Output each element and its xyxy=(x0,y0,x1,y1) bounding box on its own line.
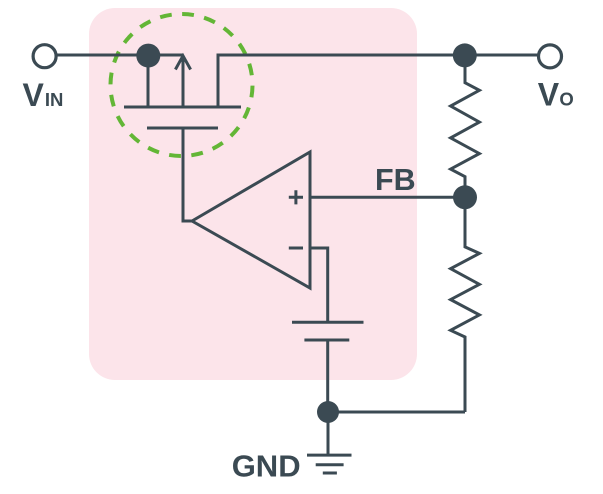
svg-text:O: O xyxy=(559,88,573,109)
svg-text:GND: GND xyxy=(232,448,301,483)
svg-text:IN: IN xyxy=(45,89,64,110)
svg-text:V: V xyxy=(23,77,45,113)
svg-text:V: V xyxy=(538,76,560,112)
svg-text:FB: FB xyxy=(375,163,416,197)
